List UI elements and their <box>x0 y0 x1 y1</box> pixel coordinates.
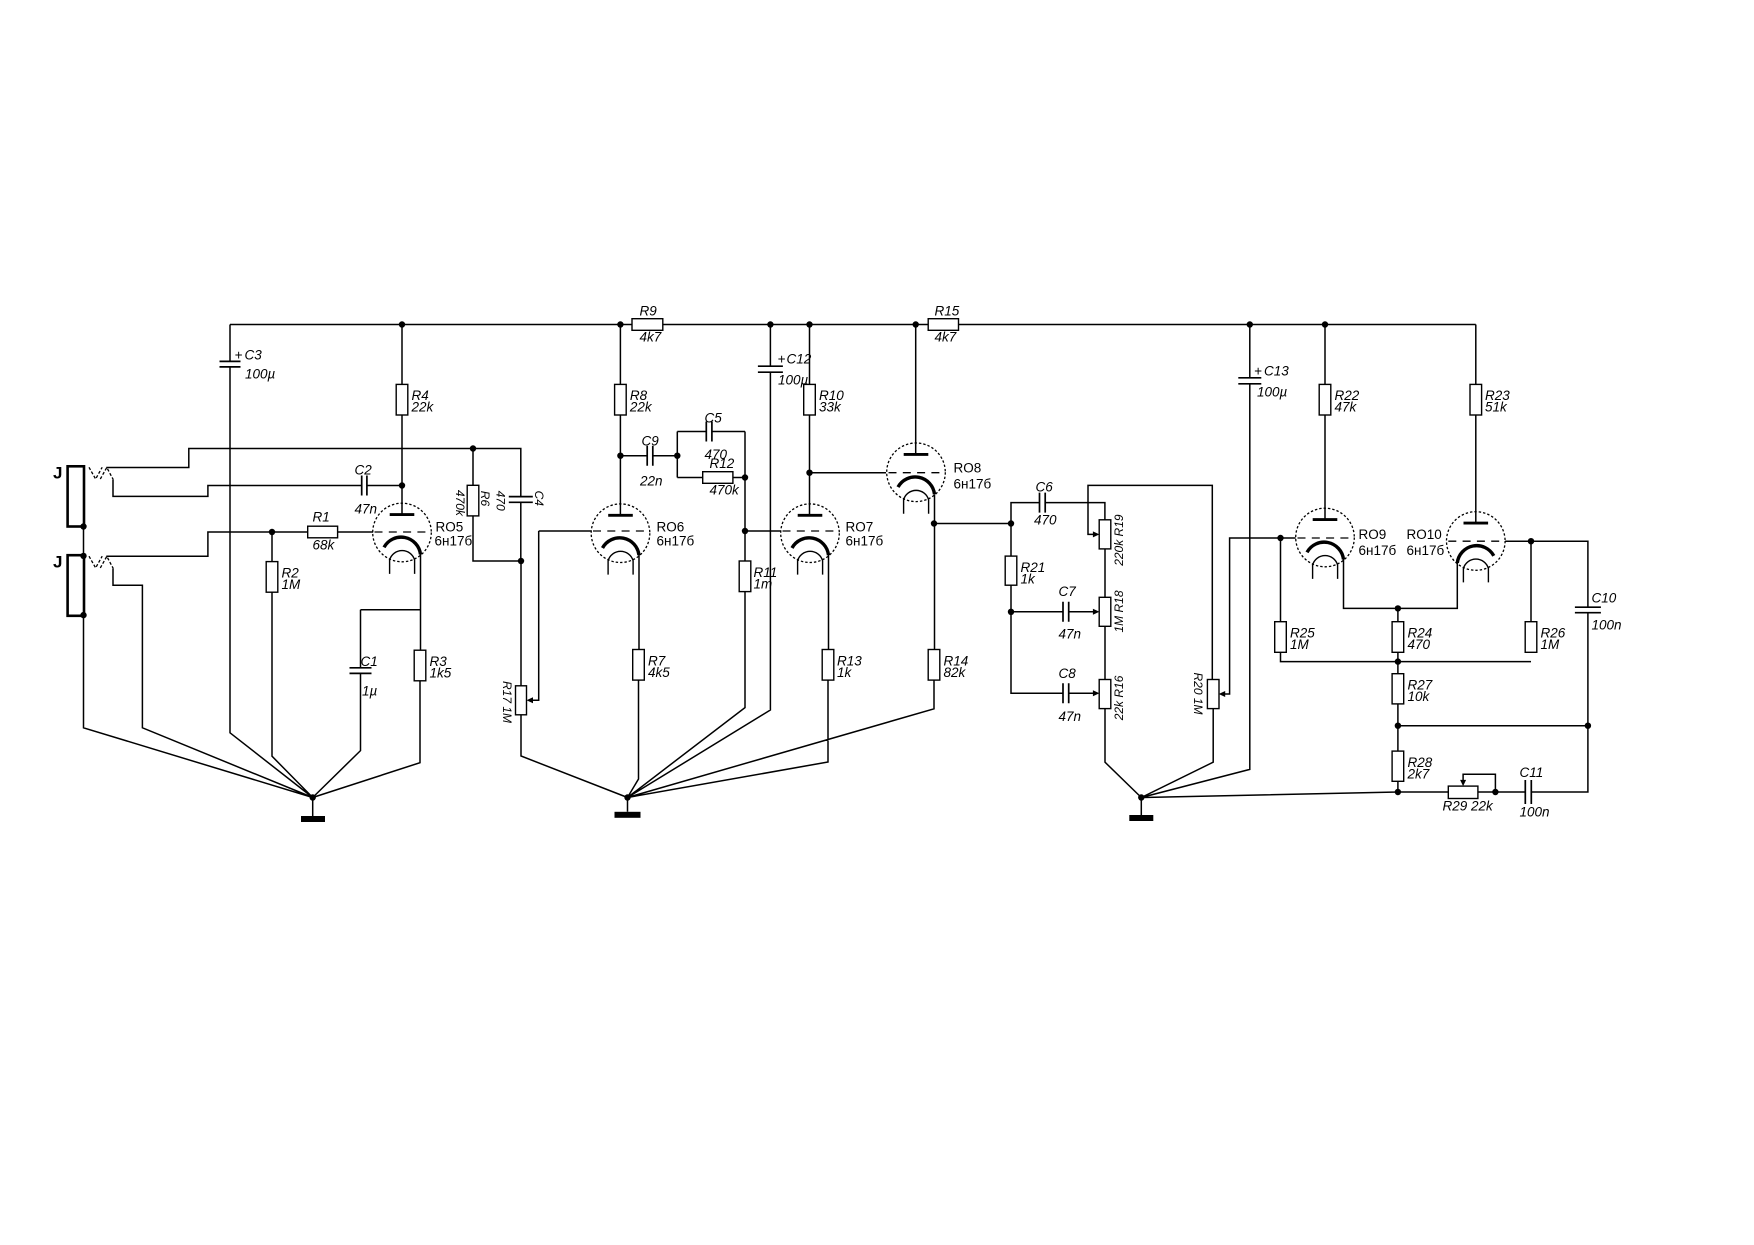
svg-text:J: J <box>53 464 62 483</box>
svg-text:1m: 1m <box>754 576 773 591</box>
svg-text:10k: 10k <box>1408 689 1431 704</box>
svg-text:+: + <box>778 352 786 367</box>
svg-text:R17 1M: R17 1M <box>500 681 514 723</box>
svg-text:R12: R12 <box>710 456 735 471</box>
svg-text:1M: 1M <box>1541 637 1561 652</box>
svg-text:C1: C1 <box>361 654 378 669</box>
svg-text:6н17б: 6н17б <box>846 534 884 549</box>
svg-text:C3: C3 <box>245 348 263 363</box>
svg-text:68k: 68k <box>313 538 336 553</box>
svg-text:100n: 100n <box>1520 805 1550 820</box>
svg-text:47n: 47n <box>1059 709 1082 724</box>
svg-text:22k: 22k <box>411 400 435 415</box>
svg-text:R9: R9 <box>640 304 658 319</box>
svg-text:51k: 51k <box>1485 400 1508 415</box>
svg-text:J: J <box>53 553 62 572</box>
svg-text:33k: 33k <box>819 400 842 415</box>
svg-text:2k7: 2k7 <box>1407 766 1430 781</box>
svg-text:100µ: 100µ <box>778 373 809 388</box>
svg-text:100µ: 100µ <box>1257 385 1288 400</box>
svg-text:C6: C6 <box>1036 480 1054 495</box>
svg-text:220k R19: 220k R19 <box>1112 514 1126 567</box>
svg-text:RO10: RO10 <box>1407 527 1442 542</box>
svg-text:RO6: RO6 <box>657 520 685 535</box>
svg-text:1M: 1M <box>282 577 302 592</box>
svg-text:C10: C10 <box>1592 591 1617 606</box>
svg-text:C7: C7 <box>1059 584 1077 599</box>
svg-text:4k5: 4k5 <box>648 665 670 680</box>
svg-text:1M: 1M <box>1290 637 1310 652</box>
svg-text:R15: R15 <box>935 304 960 319</box>
svg-text:C12: C12 <box>787 352 812 367</box>
svg-text:470: 470 <box>494 491 508 511</box>
svg-text:1k: 1k <box>837 665 853 680</box>
svg-text:22k: 22k <box>629 400 653 415</box>
svg-text:C11: C11 <box>1520 765 1544 780</box>
svg-text:6н17б: 6н17б <box>1359 543 1397 558</box>
svg-text:R6: R6 <box>478 491 492 507</box>
svg-text:4k7: 4k7 <box>935 330 957 345</box>
svg-text:47k: 47k <box>1335 400 1358 415</box>
svg-text:C4: C4 <box>532 491 546 507</box>
svg-text:470: 470 <box>1408 637 1431 652</box>
svg-text:C13: C13 <box>1264 364 1289 379</box>
svg-text:R20 1M: R20 1M <box>1191 673 1205 715</box>
svg-text:6н17б: 6н17б <box>1407 543 1445 558</box>
svg-text:4k7: 4k7 <box>640 330 662 345</box>
svg-text:C8: C8 <box>1059 666 1077 681</box>
svg-text:RO9: RO9 <box>1359 527 1387 542</box>
svg-text:RO5: RO5 <box>436 520 464 535</box>
svg-text:C5: C5 <box>705 411 723 426</box>
svg-text:1µ: 1µ <box>362 684 378 699</box>
svg-text:C9: C9 <box>642 434 660 449</box>
svg-text:6н17б: 6н17б <box>954 477 992 492</box>
svg-text:1k: 1k <box>1021 571 1037 586</box>
svg-text:100n: 100n <box>1592 618 1622 633</box>
svg-text:RO8: RO8 <box>954 461 982 476</box>
svg-text:47n: 47n <box>1059 627 1082 642</box>
svg-text:22n: 22n <box>639 474 663 489</box>
svg-text:470k: 470k <box>710 483 741 498</box>
svg-text:+: + <box>235 348 243 363</box>
svg-text:RO7: RO7 <box>846 520 874 535</box>
svg-text:100µ: 100µ <box>245 367 276 382</box>
svg-text:1k5: 1k5 <box>430 666 452 681</box>
svg-text:1M R18: 1M R18 <box>1112 590 1126 632</box>
svg-text:82k: 82k <box>944 665 967 680</box>
svg-text:+: + <box>1254 364 1262 379</box>
svg-text:C2: C2 <box>355 463 373 478</box>
svg-text:6н17б: 6н17б <box>435 534 473 549</box>
svg-text:R29 22k: R29 22k <box>1443 799 1495 814</box>
svg-text:R1: R1 <box>313 510 330 525</box>
svg-text:47n: 47n <box>355 502 378 517</box>
svg-text:470: 470 <box>1034 513 1057 528</box>
svg-text:22k R16: 22k R16 <box>1112 675 1126 721</box>
svg-text:6н17б: 6н17б <box>657 534 695 549</box>
svg-text:470k: 470k <box>453 490 467 517</box>
